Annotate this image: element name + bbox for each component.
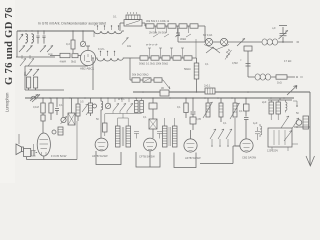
svg-text:50kΩ: 50kΩ: [184, 67, 191, 71]
speaker neck: [22, 147, 24, 152]
coil L9 hatched: [219, 103, 223, 117]
switch arrows above V6: [210, 129, 232, 139]
output transformer box: [24, 149, 31, 157]
trimmer arrow: [279, 31, 289, 40]
svg-text:2μF: 2μF: [262, 101, 267, 104]
T1 core lines: [122, 127, 124, 146]
wire: left vertical x25: [24, 66, 26, 90]
box C12: [152, 98, 154, 103]
svg-text:0,1: 0,1: [205, 63, 209, 66]
speaker cone: [16, 144, 22, 155]
wire: right feed line y77: [248, 76, 255, 78]
resistor R2: [72, 54, 78, 58]
lamp E1: [205, 38, 212, 45]
IF transformer T1 winding a: [116, 126, 121, 147]
wire after coil: [278, 41, 299, 43]
ground arrow head: [306, 156, 315, 166]
wire verticals to y113 line: [113, 111, 127, 114]
switch S2 mains: [237, 39, 245, 47]
svg-text:50kΩ 0,1 5kΩ 100k 30kΩ: 50kΩ 0,1 5kΩ 100k 30kΩ: [139, 62, 168, 66]
coil L10 hatched with arrow: [233, 103, 237, 117]
wire R2 to tube: [78, 55, 81, 57]
switch arrow on B2 left: [32, 95, 40, 103]
IF transformer T2 winding a: [163, 126, 168, 147]
hatched resistor above bus: [205, 88, 215, 94]
svg-text:CB2 5A/3W: CB2 5A/3W: [242, 156, 257, 160]
resistor R5: [42, 98, 44, 103]
svg-text:K M L: K M L: [98, 47, 105, 51]
switch arrows below M1: [20, 59, 34, 67]
wire: resistor row y80: [130, 79, 163, 81]
wire V5 grid: [190, 130, 192, 139]
trimmer marks T1: [134, 132, 139, 139]
coil pair L7: [135, 101, 139, 113]
svg-text:5kΩ: 5kΩ: [71, 60, 76, 64]
PSU bus y100: [268, 98, 292, 100]
svg-text:2x0,1: 2x0,1: [204, 84, 211, 88]
small hatched box near V2: [58, 127, 63, 135]
svg-text:0,05: 0,05: [196, 118, 201, 121]
resistor chain 1 on y26: [145, 25, 205, 27]
tube V1 AB2/ABC1 (mixer): [80, 50, 95, 65]
T2 core lines: [169, 127, 171, 146]
box with X (cap C13): [152, 109, 154, 119]
transformer bottom pins: [272, 144, 298, 151]
wire L10 down to V6: [235, 118, 240, 146]
switch arrows above R3 R4: [26, 69, 39, 76]
potentiometer P1 (tone): [126, 15, 140, 20]
svg-text:0,5M: 0,5M: [232, 62, 238, 65]
wire: osc feedback drop: [129, 58, 131, 80]
svg-text:0,1M: 0,1M: [33, 105, 39, 109]
coil L4 on lamp line: [262, 39, 278, 45]
wire V6 to ground line: [200, 146, 240, 164]
antenna trimmer branch: [279, 26, 287, 43]
svg-text:AB2 ABC1: AB2 ABC1: [80, 67, 95, 71]
hatched coil x78: [76, 104, 80, 116]
svg-text:CF7B 5A/3W: CF7B 5A/3W: [139, 155, 155, 159]
svg-text:AF7B 5A/3W: AF7B 5A/3W: [185, 156, 201, 160]
resistor R13: [173, 56, 181, 60]
lamp V wires: [204, 45, 229, 50]
tube V5: [184, 139, 197, 152]
bracket under V4: [136, 151, 160, 167]
trimmer marks T2 left: [157, 132, 162, 139]
resistor R18: [143, 78, 151, 82]
tube V6 grid chain: box and cap: [245, 98, 247, 104]
wire: x178 vertical with cap: [176, 28, 180, 42]
wire: left edge vertical: [16, 31, 18, 57]
coil L2a taps: [98, 26, 119, 30]
pot circle P2: [105, 103, 110, 108]
switch arrow at transformer: [284, 131, 292, 142]
coil L2a humps on top bus: [94, 31, 124, 34]
switch arrows near x85: [82, 104, 92, 115]
coil L6 (grid coil tube V3): [101, 98, 103, 112]
box with X (TA cap): [68, 113, 75, 125]
svg-text:0,1: 0,1: [223, 122, 227, 125]
resistor R4: [34, 77, 38, 88]
svg-text:o,F: o,F: [272, 26, 276, 30]
switch arrow below pot: [122, 38, 129, 45]
antenna arrow a1: [19, 34, 23, 40]
svg-text:0,5: 0,5: [80, 101, 84, 104]
wire: bus B1 y92: [133, 91, 310, 93]
wire: bus M3: [25, 88, 64, 90]
bottom wire left y159.5: [27, 156, 78, 160]
phono pickup TA arrow: [30, 95, 38, 102]
wire to tube V3 grid: [100, 112, 102, 138]
svg-text:G 76 und GD 76: G 76 und GD 76: [4, 7, 15, 85]
svg-text:0,1: 0,1: [177, 105, 181, 109]
svg-text:In G76 mit Ant. Drehkondensato: In G76 mit Ant. Drehkondensator ausgerüs…: [38, 22, 106, 26]
wire OT to tube: [36, 152, 38, 154]
svg-text:F KO5 52/W: F KO5 52/W: [51, 154, 67, 158]
choke L11: [260, 124, 262, 137]
svg-text:Lumophon: Lumophon: [5, 92, 10, 112]
tube V4: [144, 138, 157, 151]
resistor R30 on y77: [271, 76, 276, 78]
V-switch at 213,47: [206, 48, 220, 54]
arrow to bus: [163, 80, 170, 89]
resistor R0 vertical: [71, 40, 75, 49]
resistor R8 ladder: [196, 58, 198, 63]
resistor R11: [151, 56, 159, 60]
coil L5 oval on y77: [255, 74, 271, 80]
power transformer box: [268, 128, 292, 147]
wire long x77 down: [76, 121, 78, 160]
trimmer circle: [82, 31, 84, 41]
svg-text:50k 5kΩ 30kΩ: 50k 5kΩ 30kΩ: [132, 73, 148, 77]
node dots on top bus: [19, 30, 83, 31]
capacitor C2: [43, 31, 46, 44]
pot circle with arrow: [62, 98, 64, 117]
wire: mixer input line: [50, 55, 60, 57]
band switch S1 arrows: [19, 46, 33, 53]
wire x248 branch: [244, 46, 252, 51]
resistor chain 2 on y58: [133, 57, 140, 59]
box above output tube: [41, 115, 45, 121]
wire: right edge vertical to arrow: [309, 92, 311, 165]
wire y113.5: [105, 113, 142, 115]
T1 top wires: [118, 114, 129, 127]
T2 top wires: [165, 118, 175, 126]
resistor R12: [162, 56, 170, 60]
resistor R40 hatched: [269, 102, 273, 114]
coil taps: [101, 52, 115, 57]
svg-text:-AWA: -AWA: [59, 60, 66, 64]
wire osc line down: [92, 58, 94, 90]
resistor R3: [27, 77, 31, 88]
coil L1 (antenna coil): [26, 33, 28, 44]
wire chain1 end down: [204, 26, 206, 42]
arrow up-right (mains): [287, 86, 297, 96]
output tube V2 AL4: [37, 133, 50, 156]
svg-text:a• b• c• d•: a• b• c• d•: [146, 43, 158, 47]
resistor R24: [190, 24, 198, 28]
svg-text:17 kΩ: 17 kΩ: [284, 59, 291, 63]
svg-text:30kΩ: 30kΩ: [180, 37, 186, 41]
resistor R14: [184, 56, 192, 60]
trimmer C1: [37, 31, 40, 44]
chain2 junction taps up: [148, 48, 184, 58]
small circle x94: [93, 104, 97, 108]
resistor R16: [185, 98, 187, 103]
coil L8 hatched with arrow: [206, 103, 210, 117]
page background: [0, 0, 320, 183]
wire below R0: [72, 49, 74, 53]
tube V3: [95, 138, 108, 151]
switch arrows S3: [113, 104, 133, 112]
svg-text:AF7B 5A/3W: AF7B 5A/3W: [92, 154, 108, 158]
wire into speaker: [18, 134, 20, 144]
svg-text:30k 50k 0,1 100k 1k: 30k 50k 0,1 100k 1k: [146, 19, 170, 23]
small circle near V2: [52, 130, 56, 134]
svg-text:125 220V: 125 220V: [267, 149, 278, 153]
tap arrows: [153, 34, 191, 37]
capacitor C14 and box: [191, 98, 196, 117]
wire: bus B2 y98: [25, 97, 294, 99]
pot zigzag vertical at 228: [225, 49, 232, 60]
svg-text:0,2: 0,2: [66, 42, 70, 46]
oscillator coil L3 humps: [96, 58, 133, 61]
wire: lamp line: [178, 41, 262, 43]
svg-text:0,1: 0,1: [143, 116, 147, 119]
band switch S1b arrows: [40, 46, 53, 53]
resistor R23: [179, 24, 187, 28]
pot P1 body: [124, 20, 142, 26]
wire stub below L2a: [93, 31, 95, 37]
svg-text:1μF: 1μF: [253, 122, 258, 125]
wire: bus M1: [16, 56, 55, 58]
wire P1 right to chain1: [142, 23, 145, 26]
chain1 taps down: [156, 26, 189, 33]
resistor R19: [154, 78, 162, 82]
resistor R21: [157, 24, 165, 28]
resistor R5b: [50, 98, 52, 103]
resistor R10: [140, 56, 148, 60]
svg-text:0,1: 0,1: [113, 15, 117, 19]
resistor R1 (AWA): [60, 53, 70, 57]
vertical drop x73 from top bus: [72, 31, 74, 40]
bracket under V5: [174, 153, 196, 168]
resistor R6v hatched: [89, 103, 93, 113]
tube V6: [240, 139, 253, 152]
box A on bus: [160, 90, 169, 96]
grid cap wire: [293, 101, 297, 106]
switch arrows PSU: [281, 116, 299, 130]
wires between chain2 resistors: [148, 57, 197, 59]
resistor R20: [146, 24, 154, 28]
resistor R22: [168, 24, 176, 28]
svg-text:0,1: 0,1: [59, 104, 63, 107]
OT winding hatched: [31, 151, 36, 157]
resistor R41 hatched: [276, 102, 280, 114]
coil L2 (antenna coil): [32, 33, 34, 44]
electrolytic C50 hatched: [303, 116, 309, 129]
bracket under V3: [96, 151, 121, 165]
wire: top-left antenna bus: [17, 30, 94, 32]
coil L12 small: [286, 100, 288, 112]
cap right of V6: [255, 127, 260, 140]
svg-text:1kΩ: 1kΩ: [277, 81, 282, 85]
capacitor C10: [55, 98, 59, 115]
resistor R17: [132, 78, 140, 82]
wire to right vertical: [294, 126, 310, 128]
wire P1 left to bus: [120, 23, 124, 31]
IF transformer T1 winding b: [126, 126, 131, 147]
wire TA to bus: [38, 97, 43, 99]
IF transformer T2 winding b: [173, 126, 178, 147]
wire tube V1 top: [86, 46, 90, 50]
node dots on B2: [42, 97, 285, 99]
tick x196: [195, 39, 197, 58]
wire: bus M2: [25, 65, 88, 67]
svg-text:6V 0,3A: 6V 0,3A: [203, 33, 212, 37]
lamp E2: [220, 38, 227, 45]
node dots on B1: [142, 91, 249, 93]
svg-text:W K L: W K L: [118, 98, 125, 101]
tick contacts on M1: [22, 55, 30, 59]
svg-text:0,1: 0,1: [239, 109, 243, 113]
circle P3: [296, 120, 302, 126]
resistor R26 near tube V3: [103, 123, 108, 132]
